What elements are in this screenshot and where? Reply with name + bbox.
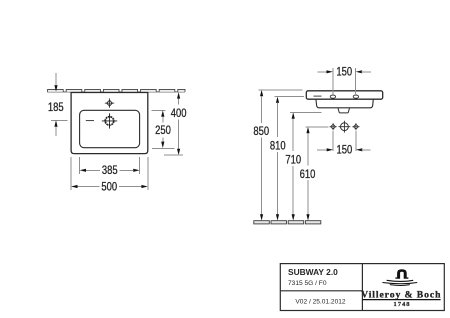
dim 150 (tap hole spacing, top) bbox=[318, 66, 372, 95]
dim 610 (floor to fixing holes) bbox=[300, 127, 329, 221]
overflow hole symbol (plan view) bbox=[105, 98, 114, 107]
extension line at rim top level bbox=[259, 89, 303, 91]
svg-text:V02 / 25.01.2012: V02 / 25.01.2012 bbox=[295, 299, 346, 306]
svg-text:7315 5G / F0: 7315 5G / F0 bbox=[288, 280, 327, 287]
basin bowl (plan view) bbox=[80, 110, 140, 147]
svg-text:150: 150 bbox=[336, 66, 352, 79]
tap holes (front view) bbox=[330, 95, 335, 98]
svg-text:610: 610 bbox=[300, 168, 316, 181]
tap hole symbol (plan view) bbox=[102, 113, 117, 128]
centre-line dash (front view) bbox=[314, 95, 322, 97]
washbasin body (front view) bbox=[316, 99, 373, 108]
svg-text:150: 150 bbox=[337, 144, 353, 157]
svg-text:SUBWAY 2.0: SUBWAY 2.0 bbox=[288, 267, 338, 277]
washbasin rim (front view) bbox=[306, 91, 382, 99]
dim 250 (bowl depth) bbox=[152, 110, 175, 148]
wall base line bbox=[47, 91, 185, 93]
svg-text:385: 385 bbox=[102, 164, 118, 177]
logo water ripples bbox=[382, 280, 417, 285]
svg-text:1748: 1748 bbox=[393, 301, 410, 308]
dim 850 (floor to rim top) bbox=[253, 90, 302, 221]
dim 500 (basin width) bbox=[71, 157, 148, 194]
dim 385 (bowl width) bbox=[80, 157, 140, 178]
title block frame bbox=[280, 264, 444, 311]
wall fixing hole symbol right (front view) bbox=[352, 123, 359, 130]
svg-text:Villeroy & Boch: Villeroy & Boch bbox=[361, 290, 441, 301]
svg-text:250: 250 bbox=[155, 124, 171, 137]
svg-text:810: 810 bbox=[270, 140, 286, 153]
extension line of basin front edge bbox=[164, 154, 183, 156]
drain hole symbol (front view) bbox=[339, 121, 351, 133]
dim 400 (wall to basin front) bbox=[164, 92, 187, 155]
extension line at fixing hole level bbox=[306, 126, 329, 128]
svg-text:400: 400 bbox=[171, 107, 187, 120]
svg-text:500: 500 bbox=[101, 180, 117, 193]
washbasin outline (plan view) bbox=[71, 93, 148, 154]
centre-line dash left of tap hole bbox=[86, 120, 94, 122]
svg-text:710: 710 bbox=[285, 154, 301, 167]
svg-text:185: 185 bbox=[48, 101, 64, 114]
dim 150 (fixing hole spacing, bottom) bbox=[317, 131, 371, 157]
extension line at tap deck level bbox=[275, 96, 305, 98]
extension line at basin underside level bbox=[290, 111, 322, 113]
floor line (front view) bbox=[254, 221, 321, 224]
Villeroy & Boch logo arch icon bbox=[395, 269, 408, 279]
drain fitting (front view) bbox=[338, 108, 350, 113]
dim 810 (floor to tap deck) bbox=[270, 97, 304, 221]
extension line of bowl bottom bbox=[152, 147, 174, 149]
wall fixing hole symbol left (front view) bbox=[330, 123, 337, 130]
dim 710 (floor to basin underside) bbox=[285, 112, 321, 220]
dim 185 (wall to tap hole) bbox=[48, 73, 68, 136]
wordmark underline bbox=[362, 299, 440, 301]
svg-text:850: 850 bbox=[253, 125, 269, 138]
